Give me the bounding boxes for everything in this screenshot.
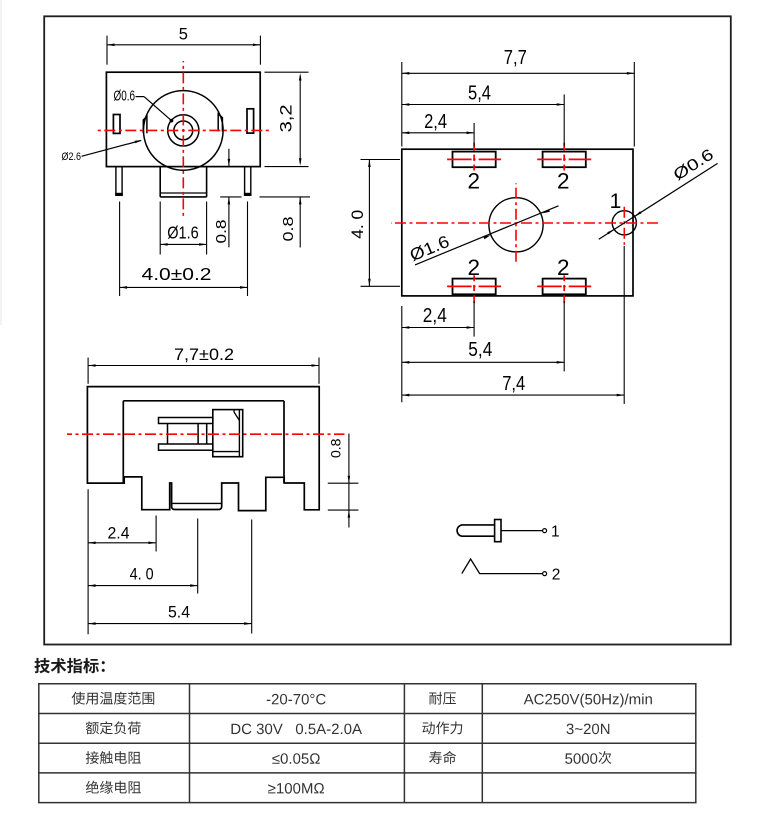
svg-text:1: 1 — [551, 524, 560, 541]
svg-text:4. 0: 4. 0 — [130, 566, 154, 584]
svg-text:Ø1.6: Ø1.6 — [167, 223, 199, 243]
svg-text:2,4: 2,4 — [423, 305, 447, 327]
svg-text:5,4: 5,4 — [468, 339, 492, 361]
svg-text:0.8: 0.8 — [280, 217, 297, 242]
svg-text:4.0±0.2: 4.0±0.2 — [142, 264, 212, 284]
svg-text:2: 2 — [557, 255, 570, 280]
svg-text:2.4: 2.4 — [108, 525, 130, 543]
svg-text:2,4: 2,4 — [424, 111, 447, 133]
svg-text:5.4: 5.4 — [168, 604, 190, 622]
svg-text:7,7±0.2: 7,7±0.2 — [174, 346, 234, 364]
svg-text:7,7: 7,7 — [504, 47, 527, 69]
svg-text:5,4: 5,4 — [468, 83, 491, 105]
svg-text:0.8: 0.8 — [327, 438, 343, 458]
svg-text:Ø0.6: Ø0.6 — [114, 89, 136, 105]
svg-text:1: 1 — [610, 190, 622, 213]
svg-text:4. 0: 4. 0 — [349, 210, 367, 239]
svg-text:2: 2 — [557, 168, 570, 193]
svg-text:2: 2 — [467, 255, 480, 280]
svg-text:Ø2.6: Ø2.6 — [62, 151, 82, 163]
svg-text:5: 5 — [179, 26, 188, 44]
svg-text:2: 2 — [552, 566, 561, 583]
svg-text:2: 2 — [467, 168, 480, 193]
svg-text:0.8: 0.8 — [214, 220, 230, 244]
svg-text:3,2: 3,2 — [276, 104, 295, 132]
svg-text:7,4: 7,4 — [502, 373, 525, 395]
svg-text:Ø1.6: Ø1.6 — [407, 232, 452, 265]
